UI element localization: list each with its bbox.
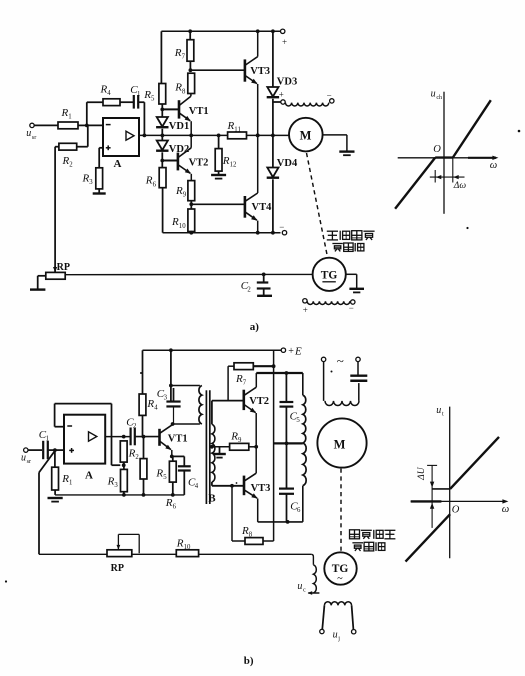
svg-text:1: 1 — [46, 436, 49, 443]
svg-text:R: R — [241, 525, 249, 537]
svg-text:4: 4 — [107, 90, 111, 97]
svg-text:7: 7 — [243, 380, 247, 387]
svg-text:RP: RP — [111, 563, 124, 574]
svg-text:7: 7 — [182, 53, 186, 60]
svg-text:10: 10 — [179, 223, 186, 230]
svg-text:8: 8 — [249, 532, 253, 539]
svg-text:R: R — [165, 497, 173, 509]
svg-text:E: E — [294, 345, 302, 357]
svg-text:R: R — [146, 398, 154, 410]
svg-text:u: u — [431, 89, 436, 100]
svg-text:+: + — [288, 346, 294, 357]
svg-text:3: 3 — [164, 395, 168, 402]
svg-text:+: + — [303, 305, 308, 315]
svg-text:VD3: VD3 — [277, 77, 297, 88]
svg-text:R: R — [82, 172, 90, 184]
svg-text:VD1: VD1 — [169, 121, 189, 132]
svg-text:1: 1 — [68, 113, 71, 120]
svg-text:ω: ω — [490, 160, 497, 171]
svg-text:u: u — [436, 405, 441, 416]
svg-text:u: u — [26, 128, 31, 139]
svg-text:R: R — [61, 107, 69, 119]
svg-text:9: 9 — [238, 437, 242, 444]
svg-text:2: 2 — [135, 454, 139, 461]
svg-text:VT3: VT3 — [251, 483, 271, 494]
svg-text:VT1: VT1 — [168, 434, 188, 445]
svg-text:R: R — [128, 447, 136, 459]
svg-text:2: 2 — [247, 287, 251, 294]
svg-text:B: B — [208, 492, 216, 504]
svg-text:6: 6 — [297, 507, 301, 514]
svg-text:6: 6 — [173, 504, 177, 511]
svg-text:R: R — [227, 120, 235, 132]
svg-text:R: R — [145, 175, 153, 187]
svg-text:sr: sr — [27, 458, 31, 465]
svg-text:ch: ch — [436, 95, 442, 101]
svg-text:R: R — [62, 155, 70, 167]
svg-text:R: R — [61, 473, 69, 485]
svg-text:−: − — [279, 222, 284, 232]
svg-text:12: 12 — [230, 161, 237, 168]
svg-text:8: 8 — [182, 88, 186, 95]
svg-text:TG: TG — [321, 269, 338, 281]
svg-text:1: 1 — [137, 91, 140, 98]
svg-text:O: O — [433, 144, 441, 155]
svg-text:4: 4 — [154, 405, 158, 412]
svg-text:b): b) — [244, 655, 254, 667]
svg-text:9: 9 — [183, 192, 187, 199]
svg-text:10: 10 — [184, 544, 191, 551]
svg-text:A: A — [85, 470, 93, 482]
svg-text:O: O — [452, 505, 460, 516]
svg-text:ΔU: ΔU — [417, 466, 427, 481]
svg-text:−: − — [327, 90, 332, 100]
svg-text:a): a) — [250, 321, 259, 333]
svg-text:2: 2 — [69, 162, 73, 169]
svg-text:11: 11 — [234, 127, 241, 134]
svg-text:1: 1 — [69, 480, 72, 487]
svg-text:R: R — [230, 430, 238, 442]
svg-text:R: R — [143, 89, 151, 101]
svg-text:3: 3 — [114, 482, 118, 489]
svg-text:R: R — [100, 83, 108, 95]
svg-text:R: R — [235, 373, 243, 385]
svg-text:M: M — [334, 437, 346, 451]
svg-text:Δω: Δω — [453, 181, 467, 191]
svg-text:ω: ω — [502, 504, 509, 515]
svg-text:VD4: VD4 — [277, 158, 298, 169]
svg-text:M: M — [300, 129, 312, 143]
svg-text:5: 5 — [296, 417, 300, 424]
svg-text:VT2: VT2 — [249, 396, 269, 407]
svg-text:c: c — [303, 587, 306, 594]
svg-text:A: A — [114, 158, 122, 170]
svg-text:~: ~ — [337, 574, 343, 585]
svg-text:R: R — [155, 467, 163, 479]
svg-text:+: + — [279, 90, 284, 100]
svg-text:R: R — [107, 475, 115, 487]
svg-text:R: R — [174, 47, 182, 59]
svg-text:5: 5 — [163, 474, 167, 481]
svg-text:j: j — [337, 635, 340, 642]
svg-text:R: R — [176, 537, 184, 549]
svg-text:u: u — [297, 581, 302, 592]
svg-text:u: u — [333, 630, 338, 641]
svg-text:R: R — [174, 82, 182, 94]
svg-text:VT2: VT2 — [189, 157, 209, 168]
svg-text:R: R — [222, 155, 230, 167]
svg-text:−: − — [349, 303, 354, 313]
svg-text:5: 5 — [151, 95, 155, 102]
svg-text:R: R — [171, 216, 179, 228]
svg-text:VT1: VT1 — [189, 106, 209, 117]
svg-text:RP: RP — [57, 262, 70, 273]
svg-text:3: 3 — [89, 179, 93, 186]
svg-text:4: 4 — [195, 483, 199, 490]
svg-text:VT3: VT3 — [250, 66, 270, 77]
svg-text:2: 2 — [133, 423, 137, 430]
svg-text:6: 6 — [153, 181, 157, 188]
svg-text:VT4: VT4 — [252, 202, 273, 213]
svg-text:R: R — [175, 185, 183, 197]
svg-text:u: u — [21, 452, 26, 463]
svg-text:sr: sr — [32, 134, 36, 141]
svg-text:+: + — [282, 37, 287, 47]
svg-text:~: ~ — [337, 353, 344, 368]
